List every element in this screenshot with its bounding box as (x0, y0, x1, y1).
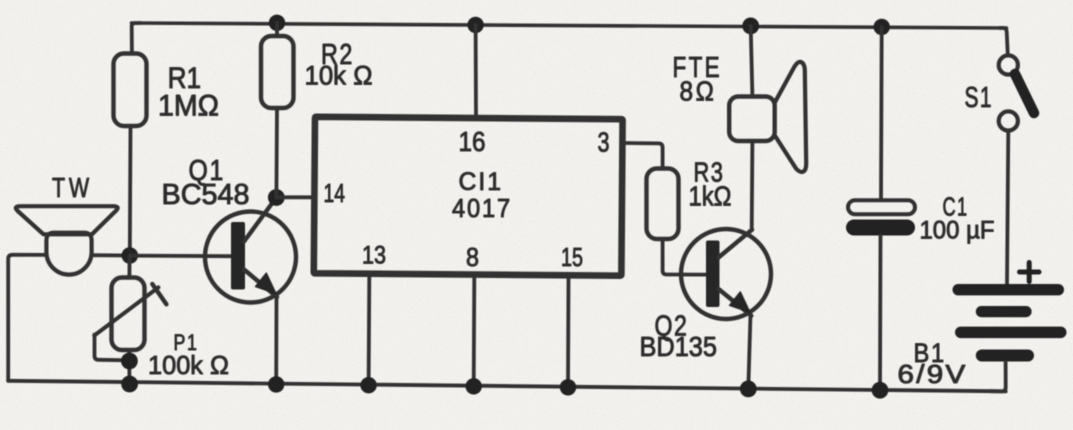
wire: Q2 emitter to bottom rail (748, 315, 750, 389)
svg-text:13: 13 (362, 242, 386, 270)
potentiometer P1 body (112, 278, 145, 351)
switch S1 bottom contact (999, 111, 1018, 130)
transducer TW horn (trapezoid) (16, 206, 118, 234)
potentiometer P1 wiper tick (152, 284, 166, 304)
wire: node A to Q1 base (130, 254, 232, 258)
wire: S1 to battery positive (1007, 131, 1008, 284)
svg-text:BD135: BD135 (640, 331, 718, 362)
transistor Q1 emitter arrowhead (256, 273, 276, 293)
speaker FTE cone (775, 62, 807, 172)
wire: TW left terminal to left rail (8, 255, 46, 381)
wire: P1 bottom to bottom rail (127, 350, 131, 384)
svg-text:8Ω: 8Ω (680, 76, 717, 107)
battery B1 plate 1 (953, 284, 1065, 295)
svg-text:1MΩ: 1MΩ (158, 90, 219, 123)
node: C1 rail dot (872, 382, 889, 399)
node: pin8 rail dot (466, 378, 482, 394)
svg-text:1kΩ: 1kΩ (689, 181, 732, 212)
node: Q1 emitter rail dot (268, 376, 284, 392)
wire: Q1 emitter down to bottom rail (274, 297, 278, 385)
transducer TW dome (46, 233, 91, 275)
transistor Q2 collector (719, 230, 753, 258)
battery B1 plate 4 (976, 350, 1034, 362)
svg-text:100k Ω: 100k Ω (148, 350, 229, 380)
switch S1 lever (1015, 74, 1034, 113)
wire: node E to speaker (751, 26, 753, 97)
transistor Q1 circle (205, 212, 296, 303)
wire: speaker to Q2 collector (750, 141, 755, 230)
wire: R2 bottom to node B (274, 108, 278, 198)
transistor Q1 base bar (231, 222, 245, 290)
transistor Q2 emitter arrowhead (730, 292, 750, 312)
svg-text:BC548: BC548 (162, 179, 250, 211)
node A junction (R1/TW/Q1 base/P1) (122, 247, 139, 264)
node B junction (R2/Q1 collector/pin14) (268, 189, 285, 206)
battery B1 plate 3 (955, 327, 1067, 339)
transistor Q2 circle (681, 229, 771, 319)
svg-text:3: 3 (598, 127, 610, 158)
wire: R3 bottom to Q2 base (663, 239, 707, 275)
wire: top rail right corner to S1 (1000, 28, 1008, 56)
wire: node F to C1 top plate (879, 27, 884, 200)
capacitor C1 top plate (848, 200, 915, 214)
wire: pin 13 to bottom rail (367, 276, 371, 385)
resistor R1 (114, 54, 147, 127)
wire: pin 3 to R3 (624, 143, 663, 169)
svg-text:TW: TW (52, 172, 93, 203)
transistor Q2 emitter (719, 289, 752, 316)
svg-text:15: 15 (561, 242, 583, 272)
resistor R2 (261, 36, 294, 108)
wire: pin 15 to bottom rail (566, 278, 570, 387)
svg-text:8: 8 (466, 242, 479, 272)
wire: bottom ground rail (8, 381, 1006, 392)
svg-text:14: 14 (324, 178, 346, 208)
wire: node B to IC pin 14 (276, 195, 312, 199)
wire: pin 8 to bottom rail (472, 277, 476, 386)
wire: C1 to bottom rail (878, 236, 882, 390)
transistor Q1 emitter (244, 270, 277, 298)
wire: TW right terminal to node A (92, 253, 130, 257)
wire: top supply rail (132, 23, 1007, 28)
capacitor C1 bottom plate (846, 220, 915, 236)
resistor R3 (647, 169, 679, 240)
wire: node D to pin 16 (474, 25, 478, 117)
svg-text:10k Ω: 10k Ω (305, 61, 373, 91)
transistor Q1 collector (244, 198, 276, 242)
switch S1 top contact (999, 55, 1018, 74)
potentiometer P1 wiper arrow (94, 287, 158, 335)
battery B1 plus sign (1020, 263, 1040, 282)
svg-text:S1: S1 (965, 82, 994, 114)
node: pin15 rail dot (560, 379, 576, 395)
wire: battery negative to bottom rail (990, 362, 1006, 392)
node: Q2 emitter rail dot (740, 381, 757, 398)
transistor Q2 base bar (706, 241, 720, 308)
wire: top-left corner down to R1 (132, 23, 140, 54)
svg-text:CI1: CI1 (459, 168, 504, 196)
wire: P1 wiper elbow to bottom terminal (95, 335, 122, 361)
node F junction on top rail (874, 19, 890, 35)
wire: node A down to P1 (127, 256, 131, 278)
wire: node C to R2 top (275, 23, 279, 36)
node: P1 bottom terminal dot (121, 353, 138, 370)
svg-text:4017: 4017 (452, 193, 512, 223)
battery B1 plate 2 (976, 306, 1032, 317)
node: P1 rail junction dot (121, 376, 138, 393)
op IC CI1 4017 box (314, 117, 623, 276)
svg-text:6/9V: 6/9V (898, 359, 968, 389)
wire: R1 bottom to node A (128, 126, 132, 256)
node: pin13 rail dot (360, 377, 376, 393)
node D junction on top rail (467, 17, 483, 33)
speaker FTE box (729, 97, 775, 142)
svg-text:100 µF: 100 µF (920, 217, 995, 245)
node C junction on top rail (269, 15, 285, 31)
svg-text:16: 16 (459, 126, 486, 157)
node E junction on top rail (742, 18, 759, 35)
